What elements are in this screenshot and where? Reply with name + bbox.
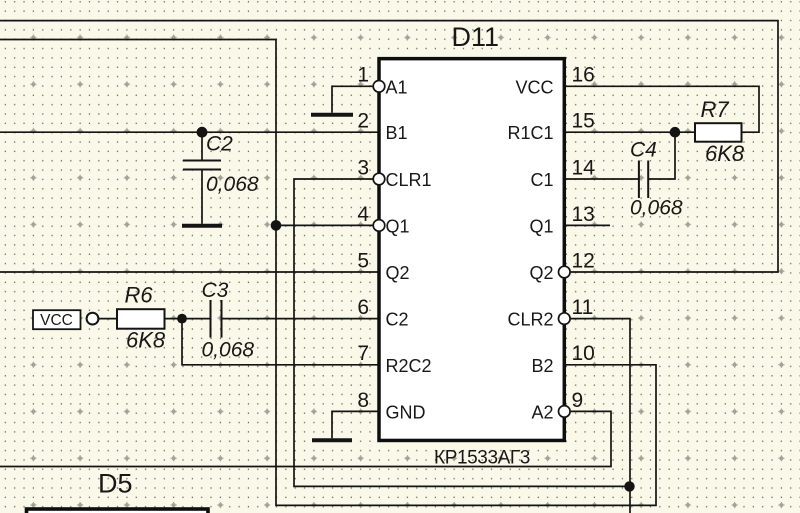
wire junction to pin 7 R2C2 <box>182 319 378 365</box>
wire VCC circle to R6 <box>99 318 117 320</box>
svg-text:7: 7 <box>357 342 369 365</box>
svg-text:8: 8 <box>357 389 369 412</box>
pin bubble 4 <box>373 220 385 232</box>
svg-text:11: 11 <box>572 296 594 319</box>
capacitor C4 <box>639 161 648 199</box>
svg-text:CLR2: CLR2 <box>507 310 553 330</box>
svg-text:C4: C4 <box>630 139 657 162</box>
wire pin 1 A1 to ground <box>332 86 373 112</box>
wire C3 right plate to pin 6 <box>222 318 378 320</box>
svg-text:A2: A2 <box>531 402 553 422</box>
pin bubble 1 <box>373 81 385 93</box>
wire C4 branch up to R1C1 node <box>649 132 676 179</box>
svg-text:R2C2: R2C2 <box>386 356 432 376</box>
svg-text:14: 14 <box>572 156 596 179</box>
IC D11 box <box>379 59 564 441</box>
svg-text:9: 9 <box>572 389 584 412</box>
wire net B1 (pin 2 to left edge) <box>0 131 378 133</box>
svg-text:16: 16 <box>572 64 595 87</box>
svg-text:C2: C2 <box>206 132 233 155</box>
svg-text:VCC: VCC <box>515 77 553 97</box>
IC D5 box (partial, bottom left) <box>27 509 209 513</box>
svg-text:4: 4 <box>357 203 369 226</box>
wire pin 4 Q1 to line A <box>276 224 373 226</box>
svg-text:2: 2 <box>357 110 369 133</box>
svg-text:0,068: 0,068 <box>202 339 255 362</box>
svg-text:15: 15 <box>572 110 595 133</box>
svg-text:C2: C2 <box>386 310 409 330</box>
wire pin 8 GND to ground <box>332 411 378 438</box>
svg-text:Q1: Q1 <box>529 216 553 236</box>
wire pin 11 CLR2 drop to bottom edge <box>571 319 630 513</box>
svg-text:C1: C1 <box>530 170 553 190</box>
svg-text:12: 12 <box>572 249 595 272</box>
svg-text:GND: GND <box>386 402 426 422</box>
ground bar at pin 1 <box>311 113 353 117</box>
wire net Q1 (line A: top line to bottom run, to pin 10 drop) <box>0 40 656 506</box>
svg-text:6K8: 6K8 <box>126 327 166 352</box>
svg-text:Q2: Q2 <box>529 263 553 283</box>
capacitor C2 <box>183 132 221 224</box>
svg-text:3: 3 <box>357 156 369 179</box>
svg-text:CLR1: CLR1 <box>386 170 432 190</box>
wire pin 15 R1C1 to R7 left end <box>566 131 695 133</box>
wire pin 16 VCC to R7 right end <box>566 86 759 132</box>
pin bubble 12 <box>559 266 571 278</box>
svg-text:6K8: 6K8 <box>705 141 745 166</box>
svg-text:0,068: 0,068 <box>206 173 259 196</box>
svg-text:5: 5 <box>357 249 369 272</box>
wire pin 14 C1 to C4 left plate <box>566 178 639 180</box>
junction node B1/C2 <box>197 127 208 138</box>
svg-text:13: 13 <box>572 203 595 226</box>
wire net Q2 feedback (pin 12 loop via top edge) <box>0 21 778 272</box>
svg-text:D5: D5 <box>98 468 133 498</box>
resistor R7 <box>695 123 742 142</box>
wire net CLR1 (pin 3 via line B to CLR2 drop) <box>294 179 630 486</box>
svg-text:R6: R6 <box>125 283 154 308</box>
VCC port box <box>33 310 81 329</box>
wire net Q2 section 1 (pin 5 to left edge) <box>0 271 378 273</box>
pin bubble 9 <box>559 406 571 418</box>
VCC port circle <box>87 313 99 325</box>
svg-text:6: 6 <box>357 296 369 319</box>
wire pin 13 stub <box>566 224 610 226</box>
wire net A2 (pin 9 to left edge) <box>0 411 611 466</box>
svg-text:B1: B1 <box>386 123 408 143</box>
junction node R6/C3/pin7 <box>177 314 187 324</box>
svg-text:0,068: 0,068 <box>630 197 683 220</box>
ground bar at C2 <box>182 224 222 228</box>
svg-text:C3: C3 <box>202 279 229 302</box>
ground bar at pin 8 <box>312 438 352 442</box>
svg-text:VCC: VCC <box>40 312 73 329</box>
svg-text:B2: B2 <box>531 356 553 376</box>
pin bubble 3 <box>373 173 385 185</box>
junction node Q1/line A <box>271 220 282 231</box>
svg-text:Q1: Q1 <box>386 216 410 236</box>
svg-text:R7: R7 <box>701 97 730 122</box>
junction node R1C1/C4 <box>670 127 681 138</box>
svg-text:A1: A1 <box>386 77 408 97</box>
svg-text:10: 10 <box>572 342 595 365</box>
svg-text:Q2: Q2 <box>386 263 410 283</box>
svg-text:КР1533АГ3: КР1533АГ3 <box>434 448 530 469</box>
resistor R6 <box>117 309 165 329</box>
wire R6 to C3 left plate <box>165 318 211 320</box>
svg-text:1: 1 <box>357 64 369 87</box>
svg-text:D11: D11 <box>452 22 500 52</box>
pin bubble 11 <box>559 313 571 325</box>
junction node CLR2/line B <box>624 481 634 491</box>
capacitor C3 <box>211 300 222 338</box>
svg-text:R1C1: R1C1 <box>507 123 553 143</box>
